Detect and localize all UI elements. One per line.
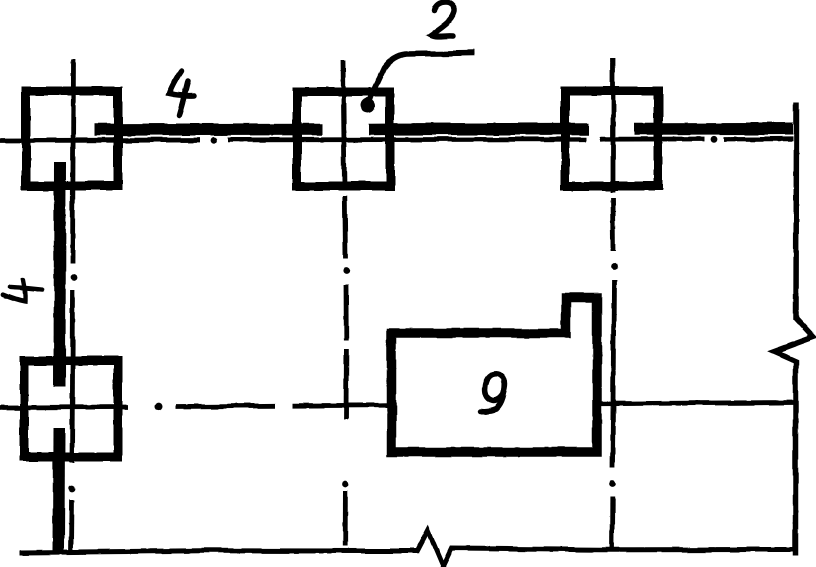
axis line H1 (top horizontal dash-dot axis): [0, 139, 793, 141]
axis H1 dot 1: [211, 137, 218, 144]
axis V3 dot 1: [611, 264, 618, 271]
axis line V1 (left vertical dash-dot axis): [71, 59, 74, 552]
axis line V3 (right vertical dash-dot axis): [612, 57, 614, 549]
beam 4 vertical (thick strip along V1): [59, 162, 61, 550]
beam 4 horizontal (thick strip along H1): [94, 129, 793, 130]
axis V1 dot 1: [71, 274, 78, 281]
label 4 (top, near horizontal beam): [169, 71, 194, 115]
axis line H2 (bottom horizontal dash-dot axis): [0, 403, 793, 408]
column S2 (top-middle square): [297, 92, 390, 186]
column S4 (bottom-left square): [24, 361, 118, 457]
axis V1 dot 2: [68, 486, 75, 493]
axis H1 dot 2: [711, 136, 718, 143]
building outline 9 (stepped rectangle): [392, 298, 598, 453]
axis H2 dot 1: [155, 403, 163, 411]
axis line V2 (middle vertical dash-dot axis): [343, 60, 346, 546]
axis V3 dot 2: [609, 481, 616, 488]
right border line with break symbol: [774, 102, 814, 556]
label 4 (left, rotated, near vertical beam): [1, 277, 43, 305]
column S1 (top-left square): [26, 91, 118, 186]
label 9: [481, 374, 505, 411]
leader line from label 2 to column S2: [369, 53, 474, 100]
label 2: [431, 2, 455, 36]
axis V2 dot 2: [342, 481, 349, 488]
bottom border line with break symbol: [20, 530, 793, 567]
axis V2 dot 1: [342, 268, 349, 275]
leader dot: [360, 98, 375, 113]
column S3 (top-right square): [565, 91, 658, 186]
